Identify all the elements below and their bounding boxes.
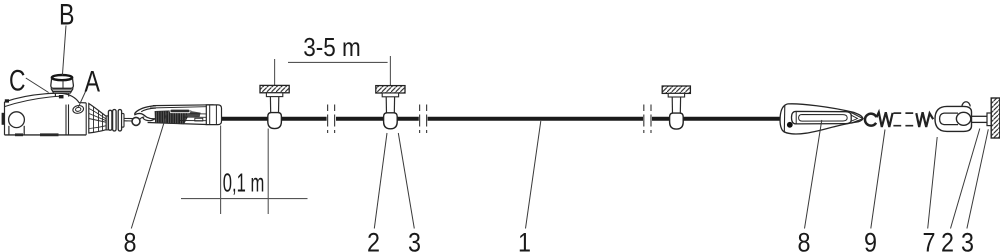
svg-text:2: 2 [941,228,954,252]
svg-text:B: B [59,0,75,32]
svg-text:C: C [9,65,26,98]
svg-text:9: 9 [864,228,877,252]
svg-text:7: 7 [923,228,936,252]
svg-text:8: 8 [798,228,811,252]
svg-text:A: A [85,65,101,98]
svg-text:0,1 m: 0,1 m [223,168,264,198]
svg-text:3-5 m: 3-5 m [303,32,361,62]
svg-text:1: 1 [518,228,531,252]
svg-text:2: 2 [367,228,380,252]
svg-text:3: 3 [961,228,974,252]
svg-text:3: 3 [408,228,421,252]
svg-text:8: 8 [124,228,137,252]
